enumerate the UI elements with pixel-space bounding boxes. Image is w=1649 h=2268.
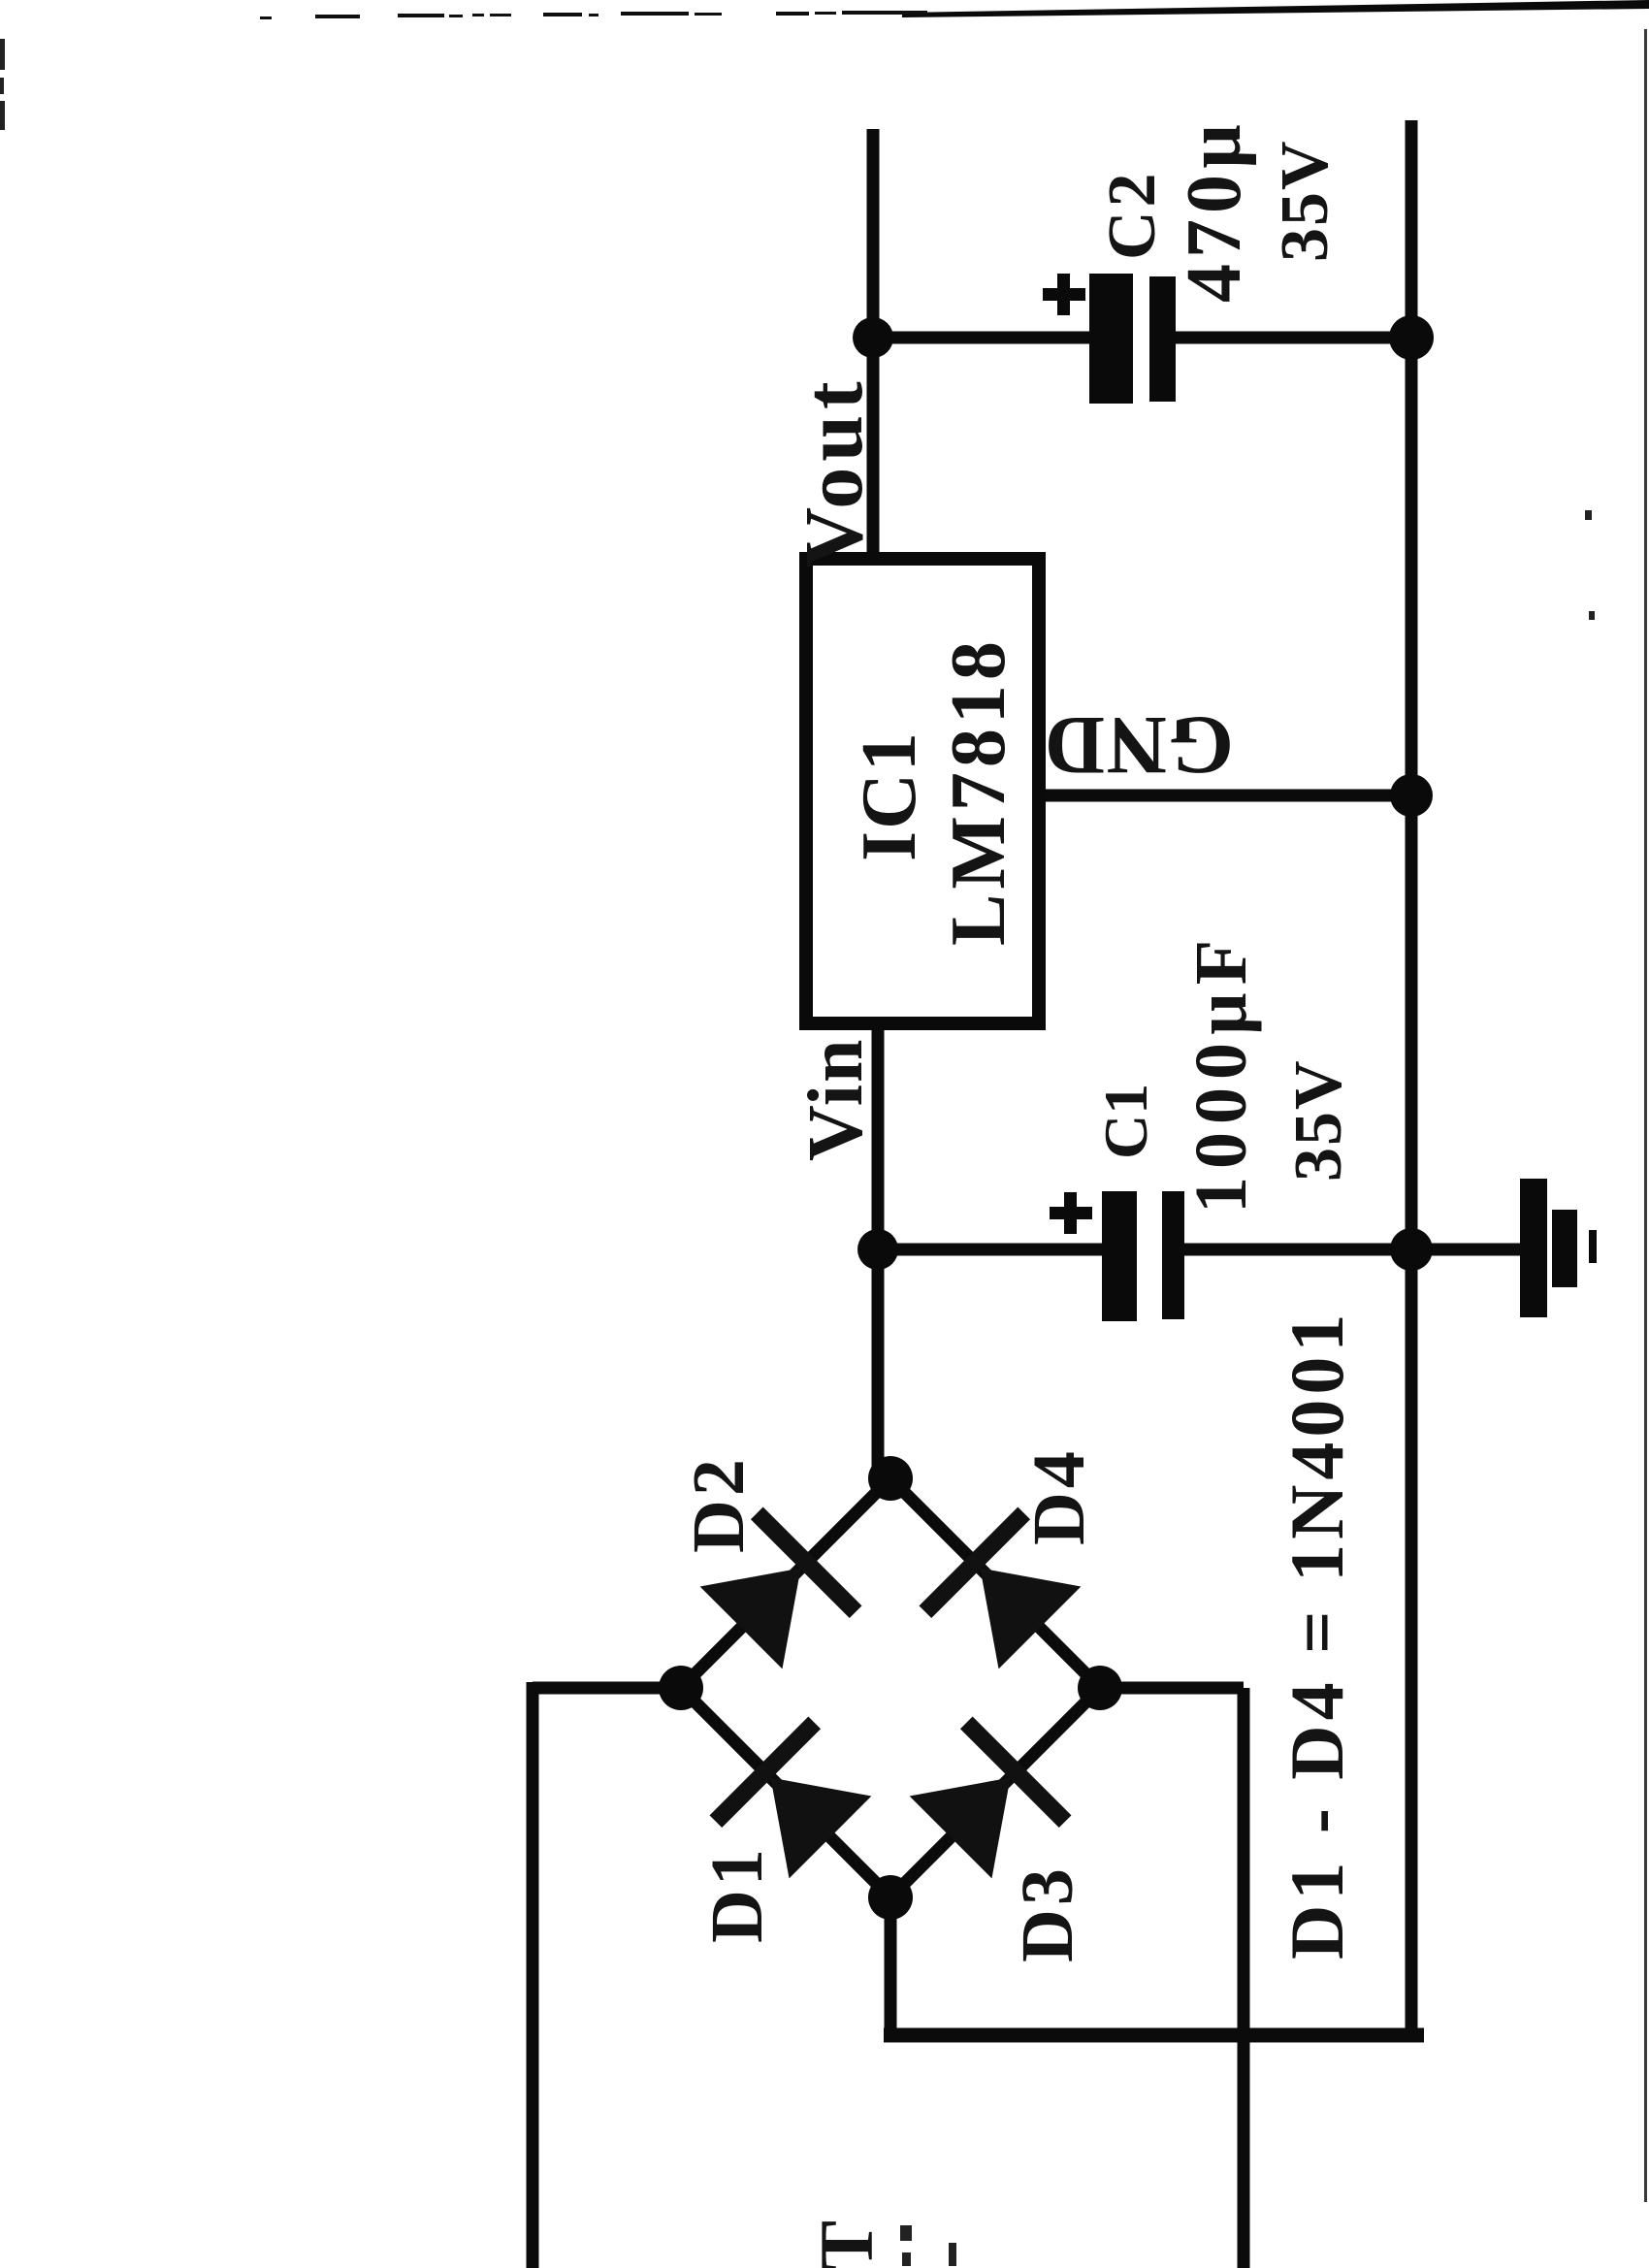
svg-text:1000µF: 1000µF: [1180, 932, 1262, 1214]
svg-text:D2: D2: [678, 1455, 760, 1553]
svg-text:Vout: Vout: [787, 375, 880, 567]
svg-text:35V: 35V: [1281, 1058, 1356, 1182]
svg-text:D4: D4: [1018, 1447, 1100, 1545]
svg-text:C1: C1: [1091, 1084, 1160, 1159]
svg-text:GND: GND: [1043, 699, 1234, 793]
svg-text:35V: 35V: [1268, 139, 1342, 262]
svg-text:470µ: 470µ: [1172, 118, 1257, 303]
svg-text:IC1: IC1: [847, 730, 932, 861]
svg-text:T: T: [804, 2220, 889, 2268]
svg-text:LM7818: LM7818: [936, 636, 1021, 946]
svg-text:D3: D3: [1007, 1864, 1088, 1962]
svg-text:C2: C2: [1095, 169, 1170, 260]
svg-text:Vin: Vin: [793, 1037, 879, 1161]
svg-text:D1 - D4 = 1N4001: D1 - D4 = 1N4001: [1275, 1310, 1359, 1960]
svg-text:D1: D1: [696, 1845, 778, 1943]
